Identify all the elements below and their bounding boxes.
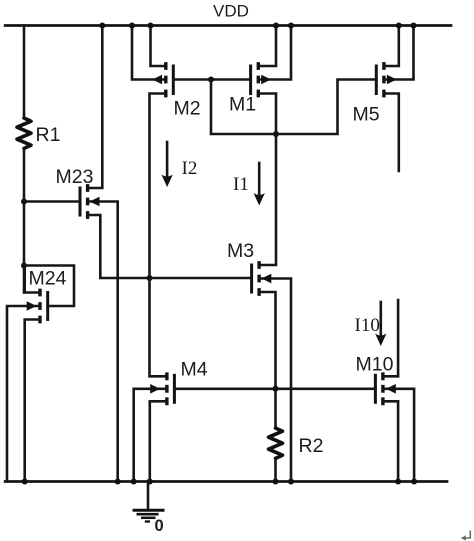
gate bar (46, 293, 49, 320)
junction ground / M3 bulk (288, 479, 294, 485)
junction VDD / M1 source (273, 23, 279, 29)
gate bar (249, 66, 252, 94)
junction M2 drain / M23 source wire (147, 275, 153, 281)
bulk stub up to VDD (132, 26, 166, 80)
bulk stub down to ground (88, 202, 118, 482)
bulk stub up to VDD (384, 26, 414, 80)
gate lead (173, 78, 211, 81)
wire gate node to M5 gate (211, 80, 376, 135)
resistor R1 (17, 118, 31, 148)
drain wire down to M3 drain (258, 94, 276, 266)
bulk arrow (NMOS, points in) (27, 301, 37, 311)
svg-text:M1: M1 (229, 94, 256, 116)
svg-text:M4: M4 (181, 359, 208, 381)
wire R1 top from VDD (23, 26, 26, 119)
junction ground / M4 source (147, 479, 153, 485)
transistor M5 (353, 26, 414, 172)
svg-text:R1: R1 (36, 124, 61, 146)
bulk arrow (NMOS, points in) (262, 274, 272, 284)
ground symbol (133, 481, 165, 535)
bulk stub down to ground (7, 306, 40, 481)
ground rail (5, 480, 447, 483)
junction VDD / M2 bulk (129, 23, 135, 29)
drain stub up to node A (25, 266, 40, 293)
gate bar (375, 66, 378, 94)
gate bar (374, 375, 377, 402)
source stub down to ground (25, 320, 40, 482)
svg-text:M3: M3 (227, 240, 254, 262)
bulk arrow (PMOS, points away) (152, 75, 162, 85)
drain stub down (open ended) (384, 94, 399, 172)
junction ground / M4 bulk (131, 479, 137, 485)
channel bars (86, 184, 89, 219)
junction VDD / M1 bulk (288, 23, 294, 29)
gate lead wire (24, 200, 80, 203)
bulk stub up to VDD (258, 26, 291, 80)
drain stub up to VDD (88, 26, 103, 189)
current arrow I1 (233, 163, 265, 206)
svg-text:R2: R2 (299, 435, 324, 457)
node A junction (21, 263, 27, 269)
svg-text:M24: M24 (29, 268, 67, 290)
bulk stub down to ground (134, 389, 167, 481)
bulk arrow (NMOS, points in) (150, 384, 160, 394)
bulk stub down to ground (259, 279, 291, 482)
bulk arrow (PMOS, points away) (261, 75, 271, 85)
current arrow I2 (161, 142, 197, 187)
VDD rail (5, 24, 451, 27)
svg-text:M2: M2 (174, 98, 201, 120)
transistor M10 (356, 300, 415, 481)
junction VDD / M2 source (148, 23, 154, 29)
junction VDD / M23 drain (99, 23, 105, 29)
source stub up to VDD (384, 26, 399, 67)
channel bars (38, 289, 41, 324)
channel bars (382, 62, 385, 97)
gate bar (172, 66, 175, 94)
source stub down and right to M3 gate (88, 215, 252, 278)
bulk arrow (90, 197, 100, 207)
svg-text:I10: I10 (355, 315, 380, 336)
junction ground / R2 (273, 479, 279, 485)
transistor M2 (132, 26, 211, 377)
svg-text:M10: M10 (356, 354, 394, 376)
gate bar (250, 265, 253, 292)
channel bars (257, 261, 260, 296)
page return mark (461, 531, 471, 541)
junction ground / M24 source (22, 479, 28, 485)
bulk arrow (PMOS, points away) (387, 75, 397, 85)
channel bars (164, 62, 167, 97)
svg-text:M23: M23 (56, 166, 94, 188)
gate bar (79, 188, 82, 215)
transistor M23 (24, 26, 252, 482)
channel bars (381, 372, 384, 405)
drain wire down to M4 drain (150, 94, 167, 377)
transistor M3 (227, 240, 291, 481)
node M1-M2 gate junction (208, 77, 214, 83)
svg-text:0: 0 (155, 517, 164, 535)
bulk stub down to ground (383, 389, 414, 481)
wire R1 bottom to node A (23, 148, 26, 292)
gate loop wire to node A (24, 266, 74, 307)
source stub down to ground (383, 401, 398, 481)
svg-text:M5: M5 (353, 104, 380, 126)
junction VDD / M5 bulk (411, 23, 417, 29)
resistor R2 (269, 428, 283, 458)
junction ground / M10 bulk (411, 479, 417, 485)
junction M1 drain / gate feedback wire (273, 131, 279, 137)
source stub up to VDD (151, 26, 166, 67)
gate lead (211, 78, 251, 81)
junction ground / M23 bulk (115, 479, 121, 485)
wire R2 bottom (274, 458, 277, 481)
current arrow I10 (355, 302, 387, 346)
transistor M24 (7, 266, 74, 482)
svg-text:VDD: VDD (213, 2, 249, 21)
svg-text:I2: I2 (182, 158, 198, 179)
wire M4 gate to M10 gate (174, 387, 375, 390)
transistor M4 (134, 359, 208, 482)
bulk arrow (NMOS, points in) (386, 384, 396, 394)
junction VDD / M5 source (396, 23, 402, 29)
drain stub up (open ended) (383, 300, 398, 376)
transistor M1 (211, 26, 291, 266)
junction M3 source / gate wire (273, 386, 279, 392)
source stub up to VDD (258, 26, 276, 67)
source stub down to ground (150, 401, 167, 481)
node M23-gate junction (21, 199, 27, 205)
channel bars (165, 372, 168, 405)
source stub down to R2 (259, 292, 275, 428)
junction ground / M10 source (395, 479, 401, 485)
channel bars (257, 62, 260, 97)
gate bar (173, 375, 176, 402)
svg-text:I1: I1 (233, 174, 249, 195)
